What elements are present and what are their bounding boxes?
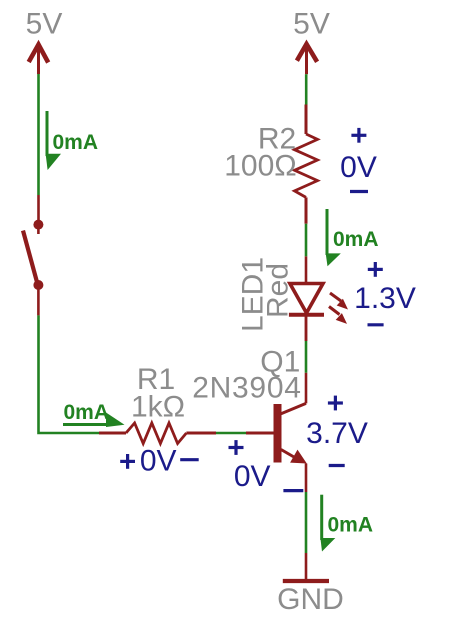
ground xyxy=(283,579,329,583)
switch SW1 xyxy=(23,220,43,290)
current annotation 0mA (emitter) xyxy=(320,495,373,552)
voltage annotation + across R2 xyxy=(351,128,366,143)
wire xyxy=(39,315,100,433)
svg-text:Red: Red xyxy=(262,263,295,318)
power arrow V1 (left 5V) xyxy=(29,45,49,75)
svg-text:0mA: 0mA xyxy=(333,228,379,251)
voltage annotation - across LED1 xyxy=(368,323,384,326)
voltage annotation + base-emitter xyxy=(229,440,244,455)
svg-text:0V: 0V xyxy=(140,445,177,478)
svg-text:100Ω: 100Ω xyxy=(224,150,296,183)
svg-text:2N3904: 2N3904 xyxy=(192,372,301,405)
svg-text:0V: 0V xyxy=(234,460,271,493)
current annotation 0mA (into R1) xyxy=(63,401,125,427)
voltage annotation - collector-emitter xyxy=(329,464,345,467)
wire xyxy=(305,74,308,104)
svg-text:0V: 0V xyxy=(340,151,377,184)
voltage annotation + collector-emitter xyxy=(328,396,343,411)
resistor R1 xyxy=(99,423,216,444)
svg-text:0mA: 0mA xyxy=(328,514,374,537)
voltage annotation - base-emitter xyxy=(283,489,303,492)
svg-text:GND: GND xyxy=(277,583,344,616)
svg-text:1.3V: 1.3V xyxy=(354,282,416,315)
svg-text:3.7V: 3.7V xyxy=(306,417,368,450)
transistor Q1 xyxy=(246,403,307,463)
svg-text:5V: 5V xyxy=(293,8,330,41)
power arrow V1 (right 5V) xyxy=(297,44,317,74)
wire xyxy=(37,285,40,315)
voltage annotation + across R1 xyxy=(120,454,135,469)
wire xyxy=(37,74,40,195)
wire xyxy=(305,224,308,257)
current annotation 0mA (into LED1) xyxy=(326,209,379,266)
wire xyxy=(37,195,40,221)
wire emitter xyxy=(305,464,308,580)
voltage annotation - across R1 xyxy=(180,458,199,461)
resistor R2 xyxy=(295,105,318,224)
current annotation 0mA (left branch) xyxy=(46,111,98,170)
voltage annotation + across LED1 xyxy=(368,262,383,277)
LED LED1 xyxy=(289,256,348,341)
svg-text:1kΩ: 1kΩ xyxy=(131,391,185,424)
wire collector xyxy=(305,316,308,403)
svg-text:5V: 5V xyxy=(26,8,63,41)
svg-text:0mA: 0mA xyxy=(53,131,99,154)
svg-text:0mA: 0mA xyxy=(64,401,110,424)
voltage annotation - across R2 xyxy=(350,190,368,193)
wire xyxy=(216,432,246,435)
